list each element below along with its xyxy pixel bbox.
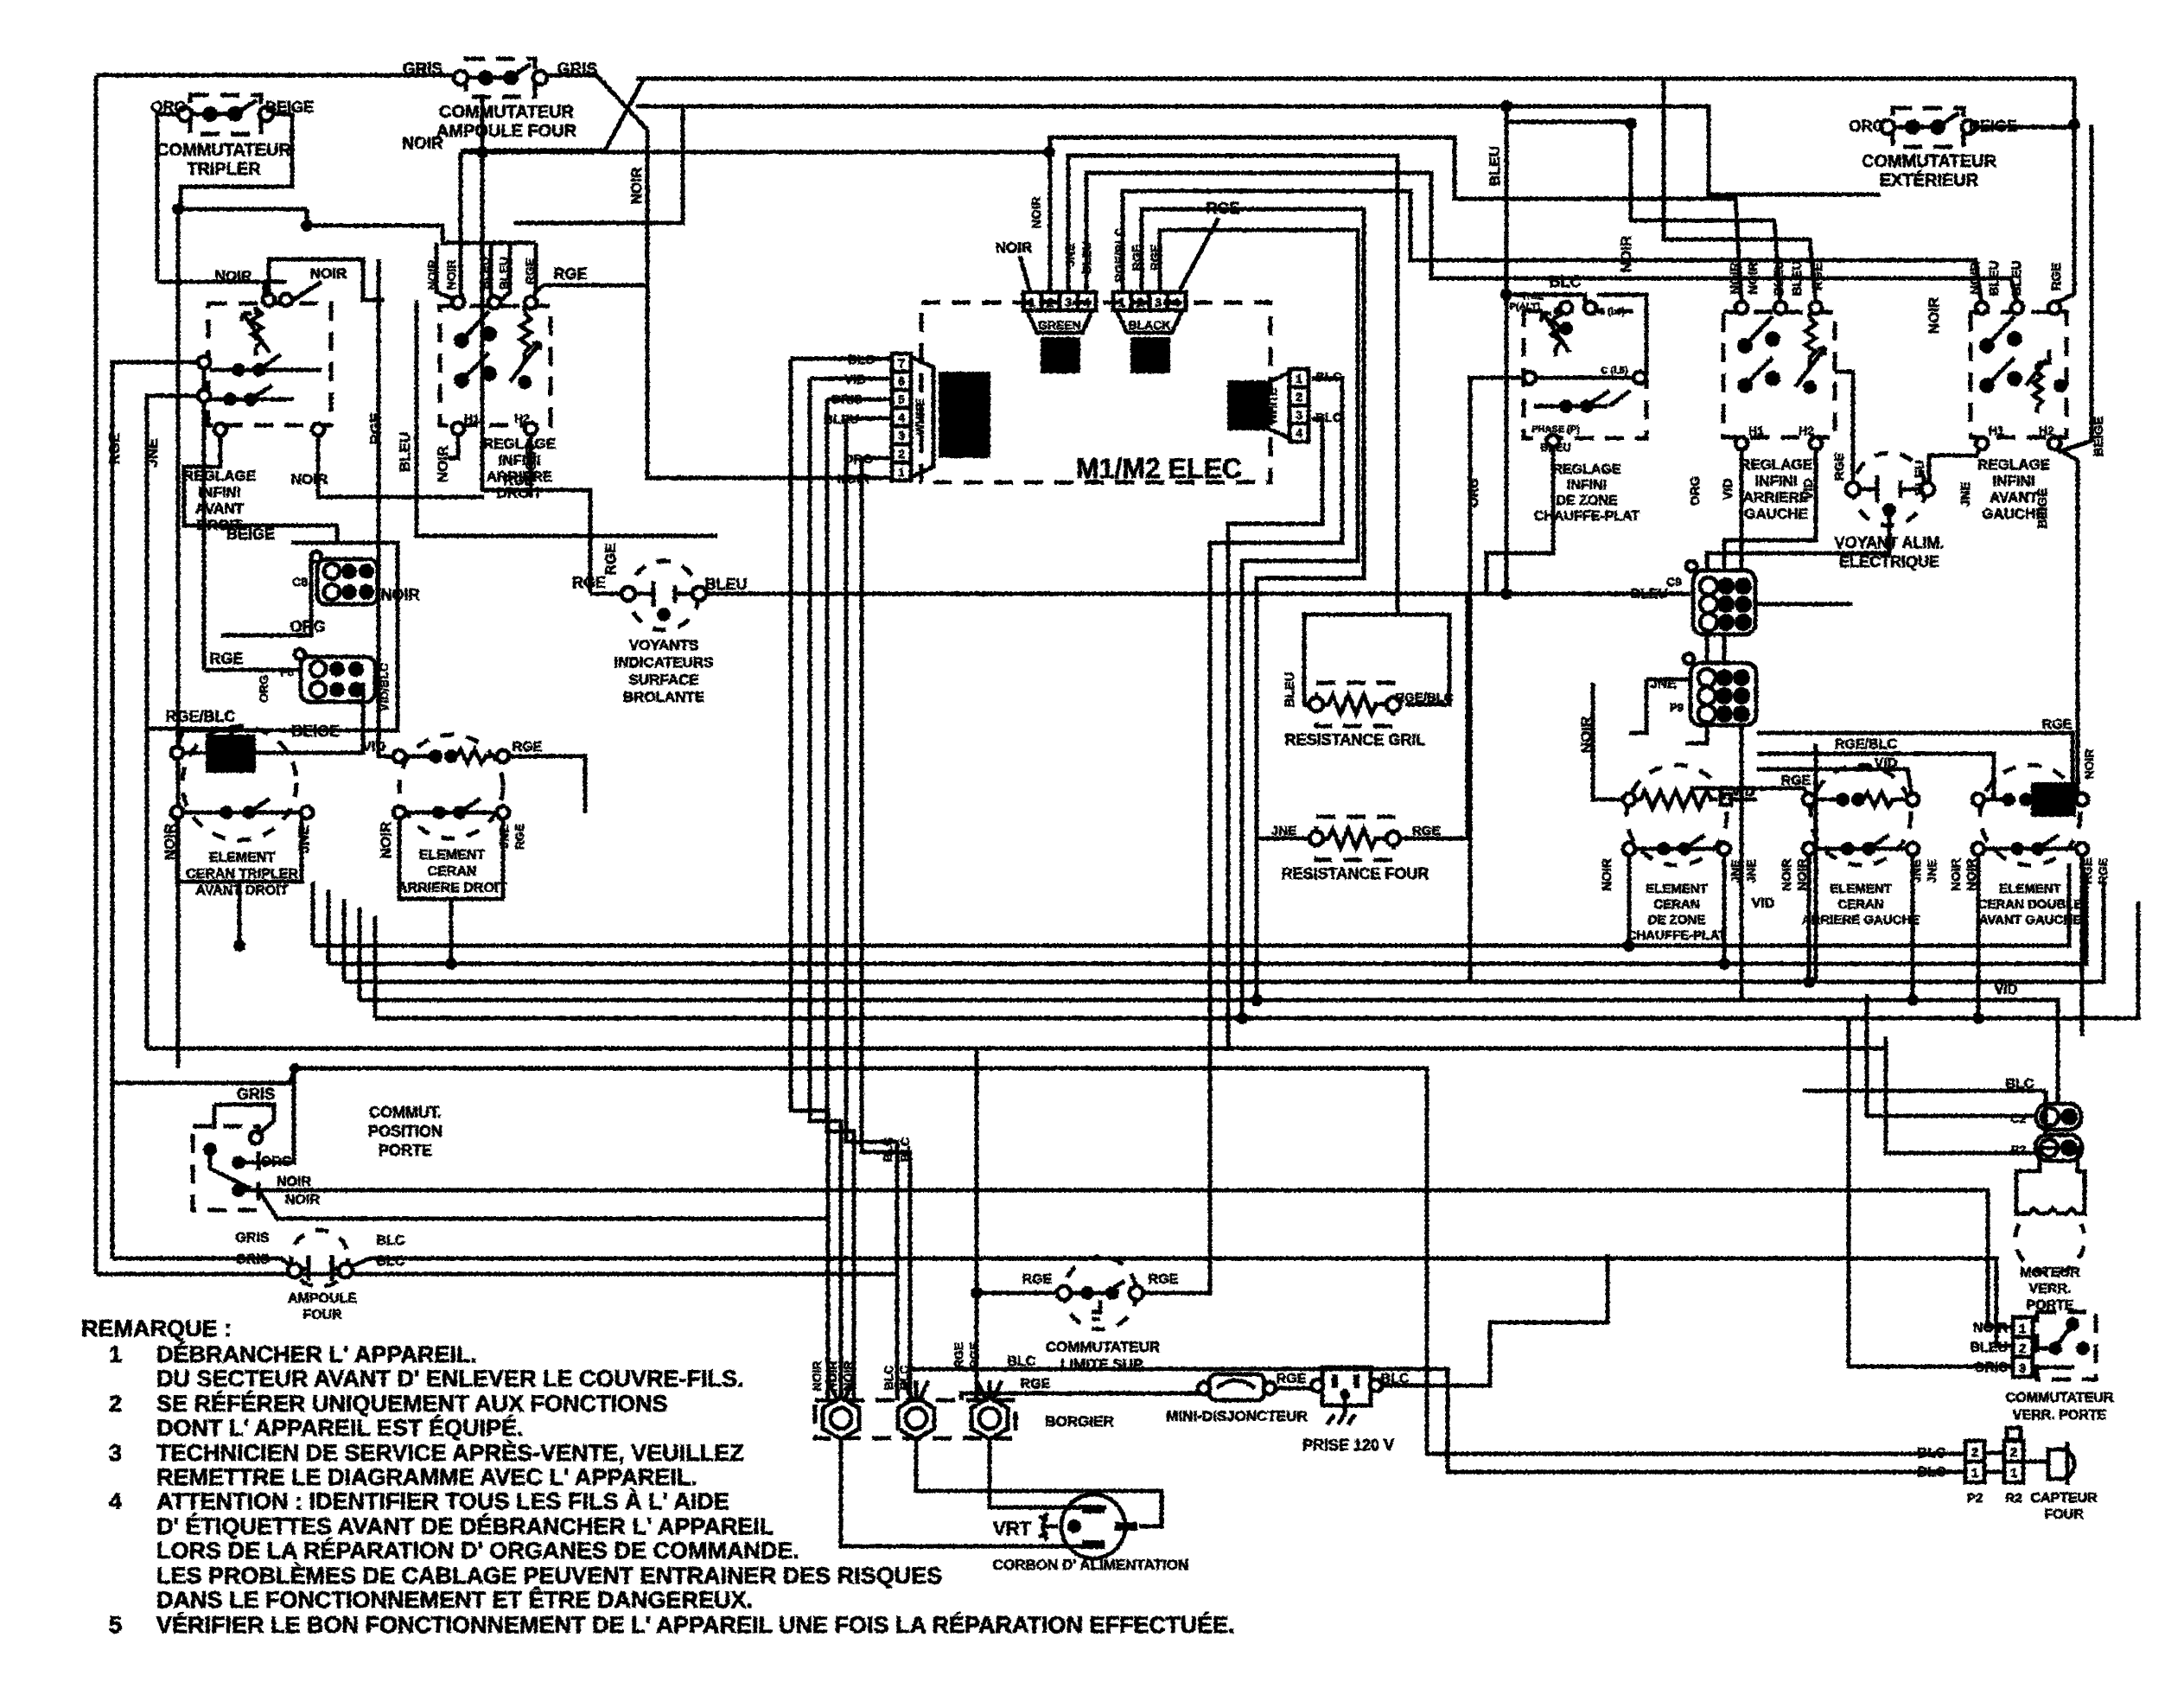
NOTES bbox=[81, 1316, 1234, 1638]
svg-text:2: 2 bbox=[2010, 1445, 2017, 1460]
svg-text:ARRIERE DROIT: ARRIERE DROIT bbox=[398, 881, 506, 895]
svg-text:NOIR: NOIR bbox=[402, 135, 443, 153]
wire BLEU riser x1743 bbox=[1505, 106, 1509, 594]
wire RGE/BLC to element3 bbox=[1757, 754, 1994, 800]
wire bus4 y1157 VID to C2 bbox=[360, 1000, 2058, 1104]
svg-text:EXTÉRIEUR: EXTÉRIEUR bbox=[1880, 170, 1979, 190]
svg-text:ORG: ORG bbox=[290, 618, 325, 635]
wire infinite sw right top pins riser bbox=[269, 259, 385, 300]
wire RGE riser between switches bbox=[377, 259, 381, 415]
wire RGE left vertical x130 bbox=[112, 362, 204, 1258]
svg-text:COMMUTATEUR: COMMUTATEUR bbox=[1862, 152, 1996, 171]
svg-text:JNE: JNE bbox=[144, 438, 161, 467]
svg-text:2: 2 bbox=[1296, 390, 1302, 404]
svg-text:RGE: RGE bbox=[1523, 291, 1544, 302]
svg-text:1: 1 bbox=[109, 1341, 122, 1367]
svg-text:C (L5): C (L5) bbox=[1601, 366, 1628, 376]
element ELEMENT CERAN ARRIERE GAUCHE bbox=[1803, 765, 1919, 865]
svg-text:INFINI: INFINI bbox=[1992, 473, 2034, 489]
wire bus1 left up bbox=[311, 882, 315, 946]
wire nest n2 to resistance gril bbox=[1068, 156, 1398, 615]
svg-text:NOIR: NOIR bbox=[1968, 262, 1983, 295]
svg-text:WHITE: WHITE bbox=[1266, 388, 1279, 424]
svg-text:RGE/BLC: RGE/BLC bbox=[1395, 691, 1454, 705]
svg-text:RGE: RGE bbox=[1022, 1272, 1053, 1287]
lamp VOYANTS INDICATEURS SURFACE bbox=[621, 561, 706, 630]
svg-text:COMMUT.: COMMUT. bbox=[369, 1104, 442, 1121]
breaker MINI-DISJONCTEUR bbox=[1198, 1374, 1276, 1400]
svg-text:JNE: JNE bbox=[1925, 859, 1939, 882]
svg-text:RGE: RGE bbox=[572, 574, 606, 591]
wire top GRIS bus left bbox=[96, 73, 462, 78]
svg-text:NOIR: NOIR bbox=[1600, 858, 1614, 891]
svg-text:BLEU: BLEU bbox=[1913, 461, 1927, 496]
svg-text:AVANT GAUCHE: AVANT GAUCHE bbox=[1979, 913, 2082, 927]
wire central bundle v2 bbox=[810, 379, 841, 1400]
svg-text:VRT: VRT bbox=[993, 1518, 1032, 1539]
wire RGE label feed sw2 bbox=[543, 283, 647, 288]
wire P1 pin7 BLC lead bbox=[791, 357, 892, 361]
svg-text:JNE: JNE bbox=[1958, 481, 1973, 506]
motor MOTEUR VERR PORTE bbox=[2015, 1148, 2085, 1273]
svg-text:NOIR: NOIR bbox=[215, 268, 252, 284]
svg-text:NOIR: NOIR bbox=[996, 239, 1033, 256]
svg-text:FOUR: FOUR bbox=[302, 1308, 342, 1322]
svg-text:3: 3 bbox=[1065, 296, 1072, 310]
svg-text:BEIGE: BEIGE bbox=[291, 723, 340, 740]
svg-text:NOIR: NOIR bbox=[425, 260, 439, 290]
svg-text:NOIR: NOIR bbox=[291, 471, 328, 487]
svg-text:RGE: RGE bbox=[1148, 245, 1162, 271]
svg-text:BLEU: BLEU bbox=[824, 412, 859, 427]
svg-text:RGE: RGE bbox=[367, 413, 384, 445]
svg-text:RGE: RGE bbox=[2080, 858, 2094, 884]
wire bus3 left up bbox=[342, 899, 347, 982]
svg-text:1: 1 bbox=[1296, 372, 1302, 385]
svg-text:DANS LE FONCTIONNEMENT ET ÊTRE: DANS LE FONCTIONNEMENT ET ÊTRE DANGEREUX… bbox=[156, 1586, 753, 1613]
svg-text:NOIR: NOIR bbox=[825, 1361, 839, 1392]
svg-text:RGE: RGE bbox=[967, 1342, 981, 1368]
wire bus6 y1199 to P2 riser bbox=[147, 1048, 2035, 1153]
wire VID to element2 bbox=[1757, 769, 1913, 800]
wire x206 vertical bbox=[176, 209, 181, 1068]
svg-text:2: 2 bbox=[2019, 1341, 2026, 1356]
svg-text:VERR.: VERR. bbox=[2029, 1282, 2072, 1296]
svg-text:VÉRIFIER LE BON FONCTIONNEMENT: VÉRIFIER LE BON FONCTIONNEMENT DE L' APP… bbox=[156, 1611, 1234, 1638]
svg-text:GRIS: GRIS bbox=[831, 392, 863, 407]
infinite switch REGLAGE INFINI ARRIERE DROIT bbox=[440, 296, 551, 435]
svg-text:VID: VID bbox=[1801, 478, 1816, 500]
wire central bundle v4 bbox=[846, 418, 897, 1400]
svg-text:BORGIER: BORGIER bbox=[1045, 1413, 1113, 1430]
svg-text:NOIR: NOIR bbox=[837, 472, 870, 487]
wire element2 bottoms bbox=[1807, 849, 1812, 982]
wire BLC chauffe-plat top bbox=[1506, 295, 1585, 304]
wire limite sup right RGE bbox=[1140, 1291, 1210, 1296]
svg-text:3: 3 bbox=[1296, 408, 1302, 422]
svg-text:GRIS: GRIS bbox=[235, 1252, 269, 1267]
wire bornier c1 down to cordon bottom prong bbox=[841, 1437, 1086, 1546]
svg-text:BLEU: BLEU bbox=[1987, 261, 2002, 296]
svg-text:GAUCHE: GAUCHE bbox=[1744, 506, 1808, 522]
svg-text:JNE: JNE bbox=[1909, 859, 1923, 882]
svg-text:3: 3 bbox=[109, 1440, 122, 1466]
wire top bus y90 to right edge bbox=[636, 79, 2074, 124]
svg-text:VOYANT ALIM.: VOYANT ALIM. bbox=[1835, 534, 1945, 551]
wire NOIR feed y326 to infinite switch bbox=[157, 282, 264, 300]
infinite switch REGLAGE INFINI DE ZONE CHAUFFE-PLAT bbox=[1524, 302, 1646, 447]
svg-text:RGE: RGE bbox=[513, 824, 526, 850]
svg-text:PRISE 120 V: PRISE 120 V bbox=[1302, 1437, 1394, 1454]
svg-text:BLC: BLC bbox=[1008, 1354, 1036, 1369]
svg-text:ORG: ORG bbox=[261, 1155, 292, 1169]
svg-text:COMMUTATEUR: COMMUTATEUR bbox=[1046, 1339, 1161, 1355]
svg-text:JNE: JNE bbox=[296, 825, 312, 853]
svg-text:GREEN: GREEN bbox=[1038, 318, 1081, 332]
wire commutateur exterieur beige out bbox=[1971, 125, 2074, 130]
wire element feeds left bbox=[379, 415, 399, 756]
connector P8 bbox=[295, 649, 375, 702]
svg-text:H1: H1 bbox=[464, 411, 480, 425]
svg-text:P2: P2 bbox=[1967, 1491, 1983, 1506]
wire x533 NOIR drop to sw2 bbox=[461, 150, 482, 155]
wire NOIR feed second pin diagonal bbox=[290, 282, 322, 302]
svg-text:BLC: BLC bbox=[1918, 1446, 1946, 1461]
element ELEMENT CERAN DOUBLE AVANT GAUCHE bbox=[1972, 765, 2088, 865]
infinite switch REGLAGE INFINI AVANT GAUCHE bbox=[1971, 302, 2067, 449]
svg-text:BLC: BLC bbox=[882, 1366, 895, 1391]
wire sw2 riser BLEU b bbox=[500, 243, 510, 302]
svg-text:SE RÉFÉRER UNIQUEMENT AUX FONC: SE RÉFÉRER UNIQUEMENT AUX FONCTIONS bbox=[156, 1390, 668, 1417]
svg-text:INFINI: INFINI bbox=[1754, 473, 1797, 489]
svg-text:BLEU: BLEU bbox=[1283, 672, 1297, 708]
switch COMMUTATEUR EXTERIEUR bbox=[1881, 108, 1976, 147]
svg-text:BLEU: BLEU bbox=[1970, 1341, 2008, 1355]
wire sw1 bottom right drop bbox=[318, 429, 484, 497]
wire voyant alim drop to C9 bbox=[1707, 517, 1889, 570]
svg-text:RGE: RGE bbox=[1277, 1372, 1307, 1386]
wire C9 to P9 jumpers bbox=[1705, 634, 1710, 663]
svg-text:RGE: RGE bbox=[1811, 263, 1825, 291]
svg-text:4: 4 bbox=[898, 411, 905, 424]
wire VID riser right bbox=[1814, 743, 1818, 982]
svg-text:RGE: RGE bbox=[1412, 824, 1441, 838]
svg-text:NOIR: NOIR bbox=[841, 1361, 855, 1392]
svg-text:BEIGE: BEIGE bbox=[226, 526, 275, 543]
svg-text:C8: C8 bbox=[292, 575, 308, 589]
svg-text:BLC: BLC bbox=[377, 1254, 405, 1269]
wire element tripler drop bbox=[238, 882, 242, 946]
wire P8 left loop bbox=[202, 362, 207, 670]
wire BLC twinB from bornier bbox=[910, 1369, 1965, 1472]
svg-text:CERAN DOUBLE: CERAN DOUBLE bbox=[1978, 897, 2083, 912]
svg-text:BLEU: BLEU bbox=[1630, 587, 1668, 602]
wire tripler ORG drop bbox=[157, 114, 184, 282]
svg-text:COMMUTATEUR: COMMUTATEUR bbox=[156, 141, 291, 160]
wire bus3 y1136 bbox=[344, 882, 2104, 982]
wire sw2 riser RGE bbox=[532, 243, 536, 300]
svg-text:BLEU: BLEU bbox=[1540, 441, 1570, 454]
svg-text:RGE: RGE bbox=[1781, 774, 1812, 788]
svg-text:GRIS: GRIS bbox=[237, 1086, 275, 1103]
wire nest n6 into bundle bbox=[1160, 230, 1358, 1018]
svg-text:RGE: RGE bbox=[1021, 1377, 1051, 1392]
svg-text:RGE: RGE bbox=[1149, 1272, 1179, 1287]
svg-text:NOIR: NOIR bbox=[381, 586, 420, 603]
svg-text:ARRIERE GAUCHE: ARRIERE GAUCHE bbox=[1802, 913, 1920, 927]
svg-text:ÉLECTRIQUE: ÉLECTRIQUE bbox=[1839, 552, 1939, 570]
svg-text:RGE/BLC: RGE/BLC bbox=[166, 708, 236, 725]
svg-text:RGE: RGE bbox=[1832, 453, 1847, 481]
connector P1 7pin white bbox=[892, 354, 990, 481]
svg-text:BLC: BLC bbox=[1381, 1372, 1410, 1386]
wire JNE left vertical x170 bbox=[147, 396, 204, 1048]
svg-text:NOIR: NOIR bbox=[310, 265, 347, 282]
wire sw1 bottom left beige bbox=[184, 429, 337, 543]
svg-text:NOIR: NOIR bbox=[1029, 196, 1044, 229]
wire GRIS riser to verr porte bbox=[1849, 1018, 2013, 1367]
svg-text:RGE: RGE bbox=[2096, 858, 2110, 884]
wire BLC drop to P2 connector bbox=[2044, 1091, 2048, 1134]
svg-text:C9: C9 bbox=[1666, 575, 1682, 589]
wire nest n4 NOIR to avant gauche bbox=[1123, 191, 1982, 304]
wire sw2 riser BLEU a bbox=[491, 243, 493, 300]
svg-text:1: 1 bbox=[2019, 1322, 2026, 1336]
svg-text:VID: VID bbox=[1752, 896, 1775, 911]
svg-text:2: 2 bbox=[1971, 1445, 1978, 1460]
resistor RESISTANCE GRIL bbox=[1309, 683, 1400, 726]
wire GRIS upper to oven lamp bbox=[112, 1258, 292, 1267]
svg-text:POSITION: POSITION bbox=[368, 1123, 443, 1140]
wire sw2 riser NOIR a bbox=[436, 243, 456, 300]
svg-text:C2: C2 bbox=[2010, 1112, 2026, 1125]
wire right border pair x2420 bbox=[2058, 124, 2092, 452]
svg-text:5: 5 bbox=[109, 1612, 122, 1638]
svg-text:M1/M2 ELEC: M1/M2 ELEC bbox=[1076, 453, 1242, 484]
svg-text:NOIR: NOIR bbox=[628, 168, 645, 205]
wire element tripler top chord out bbox=[296, 683, 363, 753]
svg-text:5: 5 bbox=[898, 392, 905, 406]
svg-text:NOIR: NOIR bbox=[1746, 262, 1761, 295]
wire tripler BEIGE drop bbox=[181, 114, 292, 209]
resistor RESISTANCE FOUR bbox=[1309, 817, 1400, 860]
svg-text:DU SECTEUR AVANT D' ENLEVER LE: DU SECTEUR AVANT D' ENLEVER LE COUVRE-FI… bbox=[156, 1366, 743, 1392]
wire bus5 y1178 bbox=[375, 901, 2138, 1018]
wire GRIS lower long line bbox=[96, 1272, 895, 1277]
outlet PRISE 120 V bbox=[1311, 1367, 1382, 1424]
svg-text:PORTE: PORTE bbox=[379, 1142, 432, 1159]
svg-text:RGE: RGE bbox=[1206, 200, 1239, 217]
svg-text:COMMUTATEUR: COMMUTATEUR bbox=[439, 103, 574, 122]
svg-text:VID: VID bbox=[362, 740, 385, 755]
wire NOIR door long line bbox=[258, 1190, 2013, 1327]
wire voyants BLEU lead across to C9 bbox=[703, 592, 1691, 596]
wire P9 left JNE lead bbox=[1646, 678, 1691, 682]
svg-text:RESISTANCE FOUR: RESISTANCE FOUR bbox=[1282, 865, 1429, 882]
svg-text:P6: P6 bbox=[280, 666, 294, 678]
wire black pin4 fan RGE bbox=[1179, 218, 1219, 292]
wire RGE into P8 bbox=[204, 668, 301, 672]
wire NOIR vertical from crossover down bbox=[646, 130, 650, 223]
svg-text:3: 3 bbox=[1155, 296, 1162, 310]
wire sw2 bottom pins drop bbox=[448, 430, 458, 458]
wire capteur R2 to sensor bbox=[2023, 1460, 2048, 1464]
svg-text:REGLAGE: REGLAGE bbox=[1977, 456, 2050, 473]
svg-text:PORTE: PORTE bbox=[2026, 1298, 2073, 1313]
connector C2 bbox=[2036, 1104, 2081, 1130]
svg-text:2: 2 bbox=[1137, 296, 1143, 310]
svg-text:NOIR: NOIR bbox=[1618, 236, 1634, 273]
wire RGE riser2 to mini breaker bbox=[961, 1393, 1204, 1400]
wire resistance four left lead bbox=[1257, 837, 1316, 841]
svg-text:NOIR: NOIR bbox=[1780, 858, 1794, 891]
wire P1 pin5 GRIS lead bbox=[827, 398, 892, 402]
svg-text:INDICATEURS: INDICATEURS bbox=[614, 654, 714, 671]
svg-text:RGE: RGE bbox=[1130, 245, 1143, 271]
wire nest n3 BLEU to avant gauche bbox=[1086, 173, 2017, 304]
svg-text:ORG: ORG bbox=[844, 452, 873, 467]
svg-text:TECHNICIEN DE SERVICE APRÈS-VE: TECHNICIEN DE SERVICE APRÈS-VENTE, VEUIL… bbox=[156, 1439, 744, 1466]
svg-text:6: 6 bbox=[898, 374, 905, 388]
svg-text:CERAN: CERAN bbox=[428, 864, 477, 879]
svg-text:1: 1 bbox=[898, 465, 905, 479]
svg-text:RGE: RGE bbox=[553, 265, 587, 283]
svg-text:P2: P2 bbox=[2011, 1143, 2026, 1156]
svg-text:4: 4 bbox=[1296, 426, 1302, 440]
svg-text:NOIR: NOIR bbox=[277, 1175, 311, 1189]
wire GRIS door drop bbox=[214, 1105, 274, 1135]
svg-text:BLC: BLC bbox=[1550, 273, 1582, 290]
svg-text:BLC: BLC bbox=[1918, 1465, 1946, 1480]
wire mini breaker to prise bbox=[1270, 1386, 1317, 1391]
wire central bundle v3 bbox=[827, 399, 854, 1400]
element ELEMENT CERAN TRIPLER AVANT DROIT bbox=[171, 726, 313, 840]
svg-text:BLEU: BLEU bbox=[497, 257, 511, 290]
svg-text:NOIR: NOIR bbox=[444, 260, 458, 290]
svg-text:1: 1 bbox=[1028, 296, 1035, 310]
svg-text:BLACK: BLACK bbox=[1129, 318, 1171, 332]
wire element1 bottoms bbox=[1627, 849, 1632, 946]
wire bus5 left up bbox=[373, 916, 378, 1018]
wire resistance four right lead bbox=[1400, 596, 1468, 838]
wire element3 bottoms bbox=[1977, 849, 1981, 1018]
svg-text:BLEU: BLEU bbox=[2009, 261, 2024, 296]
svg-text:LORS DE LA RÉPARATION D' ORGAN: LORS DE LA RÉPARATION D' ORGANES DE COMM… bbox=[156, 1537, 799, 1564]
svg-text:DONT L' APPAREIL EST ÉQUIPÉ.: DONT L' APPAREIL EST ÉQUIPÉ. bbox=[156, 1414, 523, 1441]
svg-text:AMPOULE: AMPOULE bbox=[288, 1291, 357, 1306]
svg-text:BLC: BLC bbox=[898, 1137, 912, 1163]
svg-text:RGE: RGE bbox=[513, 740, 543, 755]
wire crossover X at node bbox=[461, 79, 644, 150]
wire voyants RGE pin lead bbox=[590, 592, 625, 596]
connector C9 bbox=[1686, 561, 1755, 634]
svg-text:CERAN: CERAN bbox=[1837, 897, 1883, 912]
svg-text:P5 (L6): P5 (L6) bbox=[1594, 307, 1626, 317]
svg-text:BLC: BLC bbox=[848, 353, 875, 367]
element ELEMENT CERAN DE ZONE CHAUFFE-PLAT bbox=[1623, 765, 1731, 865]
svg-text:BLC: BLC bbox=[1315, 411, 1342, 425]
svg-text:NOIR: NOIR bbox=[1926, 297, 1942, 334]
svg-text:JNE: JNE bbox=[1744, 859, 1758, 882]
infinite switch REGLAGE INFINI AVANT DROIT bbox=[198, 294, 331, 436]
wire bundle a from M1 pin1 bbox=[1143, 379, 1342, 1293]
svg-text:FOUR: FOUR bbox=[2044, 1507, 2084, 1522]
svg-text:NOIR: NOIR bbox=[810, 1361, 824, 1392]
wire bornier c3 to cordon top prong bbox=[990, 1437, 1106, 1507]
wire drop RGE to arriere gauche bbox=[1664, 79, 1816, 304]
svg-text:AVANT DROIT: AVANT DROIT bbox=[196, 883, 289, 898]
wire RGE branch x558 down to voyants bbox=[482, 152, 590, 594]
wire P1 pin2 ORG lead bbox=[862, 456, 892, 461]
svg-text:3: 3 bbox=[898, 429, 905, 443]
sensor CAPTEUR FOUR group bbox=[1965, 1428, 2074, 1485]
svg-text:GRIS: GRIS bbox=[403, 61, 443, 79]
svg-text:GRIS: GRIS bbox=[1974, 1360, 2008, 1375]
svg-text:NOIR: NOIR bbox=[435, 446, 451, 483]
svg-text:BEIGE: BEIGE bbox=[1969, 118, 2017, 135]
svg-text:RGE: RGE bbox=[106, 433, 123, 465]
svg-text:RGE: RGE bbox=[209, 650, 243, 667]
svg-text:BLEU: BLEU bbox=[1790, 261, 1805, 296]
switch COMMUTATEUR LIMITE SUP bbox=[1057, 1257, 1143, 1329]
wire bornier c2 to cordon right prong bbox=[916, 1437, 1162, 1526]
svg-text:2: 2 bbox=[109, 1391, 122, 1417]
svg-text:DE ZONE: DE ZONE bbox=[1556, 494, 1617, 508]
wire BLEU riser x482 bbox=[417, 300, 717, 536]
wire RGE to element2 left bbox=[1691, 788, 1809, 800]
svg-text:RGE/BLC: RGE/BLC bbox=[1835, 737, 1897, 752]
svg-text:GRIS: GRIS bbox=[235, 1231, 269, 1245]
svg-text:BLEU: BLEU bbox=[397, 432, 413, 472]
svg-text:RGE: RGE bbox=[602, 544, 619, 576]
lamp VOYANT ALIM ELECTRIQUE bbox=[1846, 453, 1934, 526]
svg-text:BLEU: BLEU bbox=[1079, 241, 1093, 274]
wire chauffe-plat left loop ORG bbox=[1470, 378, 1530, 982]
svg-text:REMARQUE :: REMARQUE : bbox=[81, 1316, 232, 1341]
wire limite sup left RGE bbox=[977, 1291, 1060, 1296]
wire BEIGE continue down x206 bbox=[181, 207, 307, 212]
wire junction y258 east bbox=[513, 106, 683, 223]
connector P2 door bbox=[2035, 1135, 2082, 1161]
wire element arriere droit drop bbox=[449, 899, 454, 964]
wire bundle b from M1 pin3 bbox=[1228, 419, 1322, 1048]
svg-text:JNE: JNE bbox=[1650, 677, 1677, 691]
wire NOIR clock feed x749 bbox=[647, 223, 892, 478]
switch COMMUTATEUR TRIPLER bbox=[178, 95, 273, 134]
wire bus2 y1115 bbox=[328, 873, 2086, 964]
svg-text:BLC: BLC bbox=[1315, 370, 1342, 385]
wire NOIR horizontal y176 bbox=[482, 150, 1050, 155]
wire BLEU from voyant alim bbox=[1929, 443, 1982, 489]
terminal block BORNIER bbox=[815, 1380, 1016, 1439]
svg-text:ORG: ORG bbox=[1849, 118, 1884, 135]
svg-text:COMMUTATEUR: COMMUTATEUR bbox=[2006, 1391, 2114, 1405]
svg-text:CAPTEUR: CAPTEUR bbox=[2030, 1491, 2098, 1506]
switch COMMUTATEUR AMPOULE FOUR bbox=[454, 59, 547, 97]
infinite switch REGLAGE INFINI ARRIERE GAUCHE bbox=[1723, 302, 1835, 449]
wire P2 to R2 gap bbox=[1984, 1451, 2004, 1456]
wire element1 bottom right bbox=[1722, 849, 1727, 964]
wire avant gauche H2 beige bbox=[2054, 447, 2082, 800]
svg-text:JNE: JNE bbox=[1729, 859, 1742, 882]
svg-text:4: 4 bbox=[1173, 296, 1181, 310]
wire prise BLC out bbox=[1375, 1254, 1608, 1386]
wire RGE to voyant alim bbox=[1835, 372, 1853, 486]
svg-text:ORG: ORG bbox=[150, 99, 186, 116]
wire VID element1 out bbox=[1728, 798, 1757, 802]
svg-text:VID: VID bbox=[844, 373, 866, 387]
svg-text:BLC: BLC bbox=[897, 1366, 911, 1391]
